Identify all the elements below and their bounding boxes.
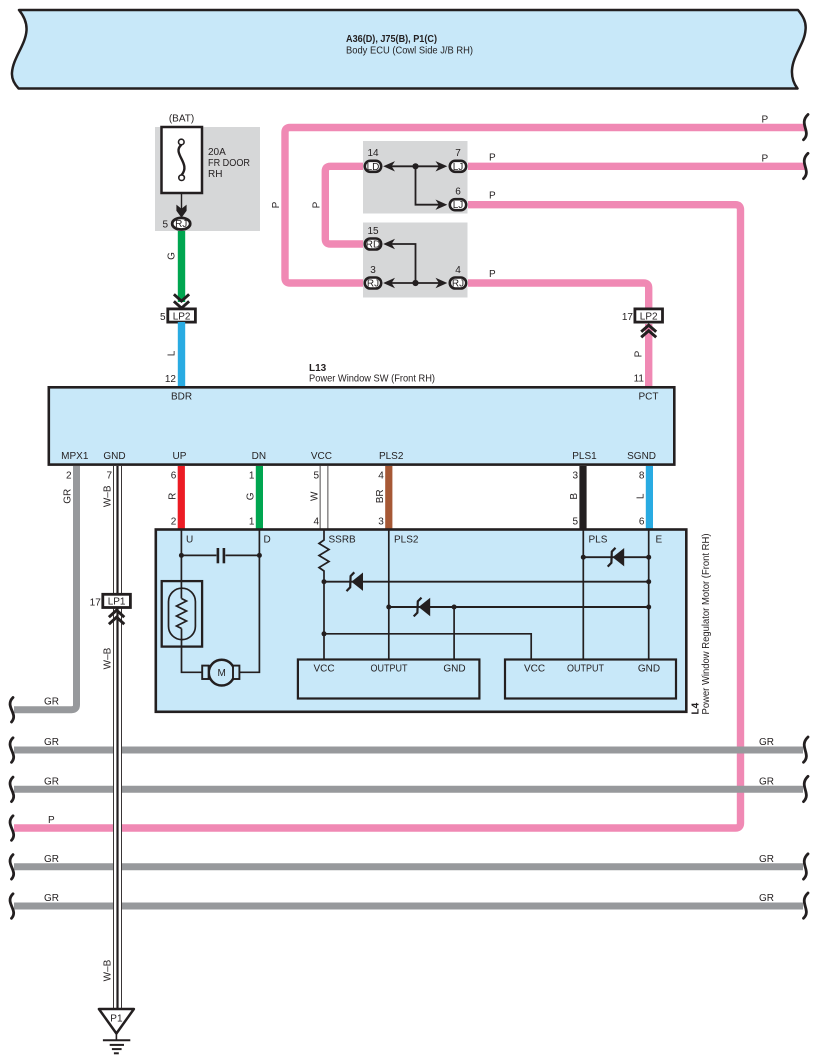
svg-text:2: 2 [66, 471, 72, 482]
svg-text:L13: L13 [309, 363, 327, 374]
svg-text:3: 3 [572, 471, 578, 482]
torn end left w3 [10, 777, 14, 802]
pin 2 U [171, 517, 177, 528]
pin 3 PLS2 [378, 517, 384, 528]
label P PCT wire [634, 350, 645, 357]
torn end left w5 [10, 894, 14, 919]
fuse 20A FR DOOR RH [162, 127, 251, 193]
ECU L13 Power Window SW box [49, 363, 675, 465]
node dot E-z1 [646, 579, 651, 584]
wire L blue SGND [646, 466, 653, 530]
driver box 1 VCC OUTPUT GND [298, 660, 480, 699]
label PLS [589, 535, 608, 546]
wire PLS vertical [582, 530, 584, 660]
svg-text:P: P [762, 115, 769, 126]
wire VCC branch to driver2 [324, 634, 531, 660]
svg-text:RD: RD [366, 240, 380, 251]
label L SGND [635, 493, 646, 499]
svg-text:VCC: VCC [313, 664, 334, 675]
wire RJ3 to RJ4 [390, 282, 440, 284]
fuse block gray background [155, 127, 260, 231]
label (BAT) [169, 114, 194, 125]
svg-text:LP2: LP2 [640, 311, 658, 322]
wire P LD-RD loop [325, 166, 363, 244]
sensor resistor box [162, 581, 202, 647]
svg-text:7: 7 [455, 148, 461, 159]
svg-text:E: E [656, 535, 663, 546]
label GR right w4 [759, 854, 774, 865]
svg-text:GR: GR [759, 854, 774, 865]
torn end right w4 [804, 854, 809, 879]
arrow into 7 LJ [436, 161, 448, 171]
svg-text:R: R [167, 493, 178, 500]
wire G green [178, 231, 185, 302]
svg-text:LP2: LP2 [173, 311, 191, 322]
pin 4 SSRB [313, 517, 319, 528]
wire sensor to motor [182, 629, 203, 673]
label P near 6 LJ [489, 191, 496, 202]
node dot PLS2-z2 [386, 605, 391, 610]
svg-text:RJ: RJ [367, 279, 379, 290]
label P top wire [762, 115, 769, 126]
wire P top (from torn end to 3 RJ) [285, 128, 805, 284]
torn end left w4 [10, 855, 14, 880]
svg-text:3: 3 [370, 265, 376, 276]
wire E vertical [648, 530, 650, 660]
pin 5 PLS [572, 517, 578, 528]
junction block lower gray box [363, 223, 468, 298]
connector 6 LJ [450, 187, 466, 212]
svg-text:17: 17 [90, 597, 102, 608]
svg-text:SGND: SGND [627, 451, 656, 462]
arrow into RD [383, 239, 395, 249]
connector 4 RJ [450, 265, 466, 290]
wire P to pin 11 PCT [645, 324, 652, 387]
svg-text:Power Window Regulator Motor (: Power Window Regulator Motor (Front RH) [701, 534, 712, 715]
svg-text:GR: GR [759, 737, 774, 748]
torn end right w3 [804, 776, 809, 801]
svg-text:P1: P1 [110, 1014, 123, 1025]
svg-text:1: 1 [249, 471, 255, 482]
zener diode D3 [608, 548, 625, 567]
pin 1 D [249, 517, 255, 528]
arrow into 3 RJ [383, 278, 395, 288]
chevron up into LP1 [109, 610, 124, 624]
svg-text:11: 11 [634, 374, 645, 385]
svg-text:7: 7 [106, 471, 112, 482]
label GR left w2 [44, 737, 59, 748]
connector 5 LP2 [160, 309, 195, 323]
wire P from 6 LJ down right side to bottom torn end [14, 205, 741, 828]
wire P from 7 LJ to torn end [468, 163, 805, 170]
pin 6 E [639, 517, 645, 528]
label GR left w4 [44, 854, 59, 865]
svg-text:4: 4 [313, 517, 319, 528]
svg-text:6: 6 [455, 187, 461, 198]
svg-text:15: 15 [367, 226, 379, 237]
capacitor C [181, 548, 259, 563]
wire W-B from GND to ground [113, 466, 122, 1009]
svg-text:GR: GR [44, 776, 59, 787]
svg-text:B: B [569, 493, 580, 500]
svg-text:14: 14 [367, 148, 379, 159]
svg-text:GR: GR [63, 489, 74, 504]
svg-text:W–B: W–B [103, 647, 114, 669]
node junction dot lower [412, 280, 418, 286]
svg-text:P: P [489, 269, 496, 280]
label GR right w5 [759, 893, 774, 904]
label R [167, 493, 178, 500]
label GR right w3 [759, 776, 774, 787]
torn end right P row2 [804, 153, 809, 178]
svg-text:W–B: W–B [103, 485, 114, 507]
pin 1 DN [249, 471, 255, 482]
wire GR from MPX1 to torn end [14, 466, 77, 710]
svg-text:RH: RH [208, 169, 222, 180]
svg-text:GR: GR [44, 697, 59, 708]
pin 11 [634, 374, 645, 385]
torn end GR MPX1 [10, 698, 14, 723]
node junction dot upper [412, 163, 418, 169]
node dot U-cap [179, 553, 184, 558]
pin 3 PLS1 [572, 471, 578, 482]
wire GR horizontal 4 [14, 863, 803, 870]
label BR [375, 489, 386, 503]
svg-text:(BAT): (BAT) [169, 114, 194, 125]
svg-text:SSRB: SSRB [329, 535, 357, 546]
svg-text:BR: BR [375, 489, 386, 503]
junction block upper gray box [363, 141, 468, 214]
torn end right w2 [804, 737, 809, 762]
svg-text:8: 8 [639, 471, 645, 482]
chevron down into LP2 left [174, 294, 189, 308]
pin 12 [165, 374, 177, 385]
label W [310, 491, 321, 501]
svg-text:PLS2: PLS2 [394, 535, 419, 546]
svg-text:17: 17 [622, 312, 634, 323]
svg-text:2: 2 [171, 517, 177, 528]
connector 3 RJ [365, 265, 381, 290]
svg-text:PCT: PCT [639, 392, 659, 403]
resistor SSRB [319, 530, 356, 660]
label E [656, 535, 663, 546]
svg-text:L4: L4 [691, 702, 702, 714]
svg-text:FR DOOR: FR DOOR [208, 158, 250, 169]
wire GND branch to driver1 [453, 607, 455, 660]
wire hline zener2 row [389, 606, 649, 608]
wire R red UP [178, 466, 185, 530]
wire RD to junction [390, 244, 416, 283]
wire BR brown PLS2 [385, 466, 392, 530]
svg-text:5: 5 [162, 220, 168, 231]
svg-text:G: G [167, 252, 178, 260]
label P bottom wire [48, 815, 55, 826]
svg-text:LJ: LJ [453, 162, 464, 173]
torn end bottom left P [10, 816, 14, 841]
wire W white VCC [320, 466, 329, 530]
label P near 4 RJ [489, 269, 496, 280]
svg-text:5: 5 [572, 517, 578, 528]
wire LD to LJ7 [390, 165, 440, 167]
pin 6 UP [171, 471, 177, 482]
label P second vertical [311, 201, 322, 208]
label GR vertical [63, 489, 74, 504]
node dot gnd-branch [452, 605, 457, 610]
node dot PLS-z3 [581, 555, 586, 560]
zener diode D2 [414, 598, 431, 617]
wire G green DN [256, 466, 263, 530]
svg-text:PLS: PLS [589, 535, 608, 546]
label GR left w3 [44, 776, 59, 787]
svg-text:L: L [635, 493, 646, 499]
svg-text:VCC: VCC [524, 664, 545, 675]
svg-text:GND: GND [638, 664, 660, 675]
connector 17 LP1 [90, 594, 131, 608]
svg-text:6: 6 [171, 471, 177, 482]
label G DN [245, 492, 256, 500]
wire U vertical [180, 530, 182, 599]
svg-text:M: M [218, 668, 226, 679]
arrow into 5 RJ [176, 205, 186, 218]
label GR horizontal MPX1 [44, 697, 59, 708]
label W-B lower [103, 959, 114, 981]
motor unit L4 box [156, 530, 712, 715]
label U [186, 535, 193, 546]
svg-text:GR: GR [44, 854, 59, 865]
label PLS2 [394, 535, 419, 546]
svg-text:OUTPUT: OUTPUT [371, 664, 408, 675]
label D [264, 535, 271, 546]
svg-text:P: P [271, 201, 282, 208]
svg-text:12: 12 [165, 374, 177, 385]
svg-text:3: 3 [378, 517, 384, 528]
connector 15 RD [365, 226, 381, 251]
svg-text:P: P [634, 350, 645, 357]
svg-text:GND: GND [443, 664, 465, 675]
wire GR horizontal 3 [14, 786, 803, 793]
label W-B middle [103, 647, 114, 669]
svg-text:MPX1: MPX1 [61, 451, 89, 462]
svg-text:GR: GR [759, 893, 774, 904]
arrow into 4 RJ [436, 278, 448, 288]
pin 8 SGND [639, 471, 645, 482]
node dot E-z2 [646, 605, 651, 610]
connector 14 LD [365, 148, 381, 173]
svg-text:W–B: W–B [103, 959, 114, 981]
wire GR horizontal 2 [14, 747, 803, 754]
zener diode D1 [347, 572, 364, 591]
svg-text:VCC: VCC [311, 451, 332, 462]
svg-text:GR: GR [759, 776, 774, 787]
motor M [202, 660, 239, 686]
svg-text:D: D [264, 535, 271, 546]
torn end top right P [804, 115, 809, 140]
node Body ECU banner [12, 10, 806, 89]
svg-text:G: G [245, 492, 256, 500]
svg-text:UP: UP [173, 451, 187, 462]
svg-text:6: 6 [639, 517, 645, 528]
svg-text:PLS2: PLS2 [379, 451, 404, 462]
label P near 7 LJ [489, 152, 496, 163]
svg-text:W: W [310, 491, 321, 501]
svg-text:P: P [311, 201, 322, 208]
wire PLS2 vertical [388, 530, 390, 660]
label GR right w2 [759, 737, 774, 748]
svg-text:RJ: RJ [175, 219, 187, 230]
pin 2 MPX1 [66, 471, 72, 482]
svg-text:L: L [167, 350, 178, 356]
svg-text:P: P [48, 815, 55, 826]
arrow into LD [383, 161, 395, 171]
svg-text:P: P [489, 191, 496, 202]
arrow into 6 LJ [436, 200, 448, 210]
torn end left w2 [10, 738, 14, 763]
svg-text:20A: 20A [208, 147, 226, 158]
torn end right w5 [804, 893, 809, 918]
svg-text:GR: GR [44, 737, 59, 748]
svg-text:LJ: LJ [453, 200, 464, 211]
svg-text:Power Window SW (Front RH): Power Window SW (Front RH) [309, 374, 435, 385]
label G [167, 252, 178, 260]
wire P from 4 RJ to 17 LP2 [468, 283, 649, 308]
svg-text:LD: LD [367, 162, 380, 173]
svg-text:4: 4 [455, 265, 461, 276]
svg-text:P: P [762, 153, 769, 164]
svg-text:RJ: RJ [452, 279, 464, 290]
ground P1 [99, 1009, 134, 1053]
svg-text:Body ECU (Cowl Side J/B RH): Body ECU (Cowl Side J/B RH) [346, 46, 473, 57]
pin 4 PLS2 [378, 471, 384, 482]
svg-text:U: U [186, 535, 193, 546]
label P right row2 [762, 153, 769, 164]
driver box 2 VCC OUTPUT GND [505, 660, 676, 699]
svg-text:5: 5 [160, 312, 166, 323]
wire hline zener3 row [583, 556, 648, 558]
svg-text:PLS1: PLS1 [572, 451, 597, 462]
node dot SSRB-vcc [322, 631, 327, 636]
node dot D-cap [257, 553, 262, 558]
node dot E-z3 [646, 555, 651, 560]
label B [569, 493, 580, 500]
label GR left w5 [44, 893, 59, 904]
connector 17 LP2 [622, 309, 663, 323]
chevron up into LP2 [641, 325, 656, 337]
wire fuse to RJ [181, 193, 183, 212]
label L [167, 350, 178, 356]
wire hline zener1 row [324, 581, 649, 583]
svg-text:BDR: BDR [171, 392, 192, 403]
svg-text:5: 5 [313, 471, 319, 482]
wire junction to 6 LJ [416, 166, 441, 204]
wire L blue to pin 12 [178, 322, 185, 387]
wire GR horizontal 5 [14, 903, 803, 910]
node dot SSRB-z1 [322, 579, 327, 584]
svg-text:GND: GND [103, 451, 125, 462]
label P left vertical [271, 201, 282, 208]
svg-text:GR: GR [44, 893, 59, 904]
wire B black PLS1 [579, 466, 586, 530]
svg-text:1: 1 [249, 517, 255, 528]
label W-B upper [103, 485, 114, 507]
svg-text:4: 4 [378, 471, 384, 482]
svg-text:A36(D), J75(B), P1(C): A36(D), J75(B), P1(C) [346, 34, 437, 45]
connector 7 LJ [450, 148, 466, 173]
pin 5 VCC [313, 471, 319, 482]
connector 5 RJ [162, 218, 190, 231]
pin 7 GND [106, 471, 112, 482]
wire D vertical [239, 530, 259, 673]
svg-text:DN: DN [252, 451, 266, 462]
svg-text:LP1: LP1 [108, 597, 126, 608]
svg-text:OUTPUT: OUTPUT [567, 664, 604, 675]
svg-text:P: P [489, 152, 496, 163]
